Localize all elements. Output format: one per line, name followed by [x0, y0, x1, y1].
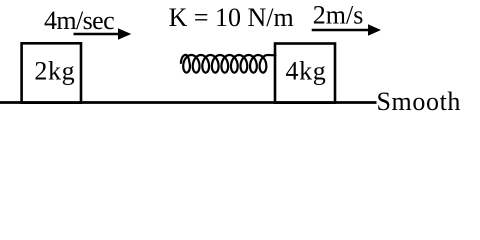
velocity arrow of 4kg block [312, 24, 381, 35]
spring K [181, 55, 276, 73]
svg-text:4kg: 4kg [286, 56, 327, 85]
ground line [0, 101, 377, 104]
svg-text:Smooth: Smooth [377, 87, 462, 116]
svg-text:2m/s: 2m/s [313, 1, 364, 30]
block 2kg [22, 43, 81, 102]
svg-text:K = 10 N/m: K = 10 N/m [169, 3, 294, 32]
svg-text:4m/sec: 4m/sec [44, 6, 114, 35]
svg-text:2kg: 2kg [34, 56, 75, 85]
velocity arrow of 2kg block [74, 28, 132, 40]
block 4kg [275, 44, 335, 103]
